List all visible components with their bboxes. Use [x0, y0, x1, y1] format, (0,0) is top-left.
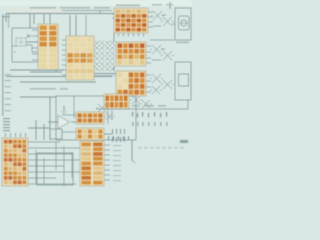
- wire U4 top drop: [69, 15, 71, 36]
- wire bus F to U9: [28, 142, 80, 186]
- U1 right pins: [148, 11, 153, 13]
- M1 caption: [176, 42, 189, 44]
- U3 right pins: [146, 74, 151, 76]
- wire U4 top drop extra: [85, 15, 87, 36]
- IC U5 (74LS series): [38, 24, 58, 70]
- wire lattice bottom: [94, 73, 118, 75]
- wire modulator lead: [172, 23, 175, 25]
- wire top rail A: [6, 13, 116, 15]
- transistor Q12: [161, 80, 174, 89]
- gate G1 output wire: [26, 41, 38, 43]
- wire bus H1: [10, 69, 64, 71]
- U9 right pin ticks: [104, 144, 110, 146]
- U6 transistor Q15: [140, 100, 152, 108]
- net label text: [30, 88, 56, 90]
- tp labels: [132, 105, 140, 107]
- warm smudge above rail: [8, 8, 68, 13]
- wire U5 top drop: [43, 14, 45, 25]
- small box S1: [50, 129, 62, 139]
- transistor Q10: [161, 51, 174, 60]
- U10 top ticks: [4, 133, 7, 137]
- top-right text marks: [152, 4, 162, 5]
- RF modulator M1: [175, 8, 191, 40]
- shield box 2: [175, 62, 191, 100]
- transistor array Q1-Q6: [95, 41, 115, 71]
- transistor Q9: [150, 45, 163, 54]
- left bus wire: [2, 14, 4, 116]
- wire box inner vertical: [73, 96, 75, 118]
- IC U7 (timer): [76, 112, 104, 124]
- U1 bottom pin ticks: [117, 34, 120, 37]
- wire mid vertical: [49, 97, 51, 140]
- U6 transistor Q14: [130, 96, 142, 104]
- IC U3 (RAM): [116, 71, 146, 96]
- box upper-left: [12, 28, 38, 62]
- transistor Q13: [150, 86, 162, 94]
- U9 pin labels: [113, 145, 121, 146]
- wire stub B1: [62, 114, 76, 116]
- U2 right pins: [146, 45, 151, 47]
- wire gate feedback: [12, 45, 38, 52]
- wire top rail B: [62, 11, 112, 14]
- U8 output wire: [104, 133, 112, 135]
- IC U6 (sound): [104, 94, 129, 109]
- wires above F: [35, 120, 37, 140]
- IC U1 (video): [114, 8, 148, 33]
- U1 input wires: [112, 13, 114, 15]
- test point row TP1-TP7: [132, 112, 167, 126]
- left bus labels: [5, 74, 12, 75]
- transistor Q7: [151, 11, 164, 20]
- wire Q7-Q8 links: [153, 15, 166, 26]
- analog section box: [56, 96, 136, 140]
- crossing X below E: [96, 104, 108, 112]
- left connector ticks: [3, 118, 10, 119]
- wire top-left drop: [5, 14, 7, 23]
- op-amp A1: [58, 116, 70, 129]
- bottom-right vertical wire: [131, 140, 133, 160]
- title text: [30, 7, 56, 9]
- U9 top ticks: [108, 136, 109, 140]
- IC U9 (I/O): [80, 141, 104, 186]
- wire bus H2: [6, 76, 112, 78]
- arrow mark: [27, 34, 32, 38]
- transistor Q11: [150, 74, 163, 83]
- U1 label text: [116, 5, 140, 7]
- op-amp wires: [48, 121, 58, 123]
- node stub x30: [29, 14, 31, 29]
- U7 transistor Q16: [104, 113, 115, 120]
- page top tint: [0, 0, 192, 6]
- watermark text: [138, 147, 142, 149]
- wire bus H3: [20, 81, 96, 83]
- gate G1: [16, 38, 26, 46]
- wire right vertical x170: [169, 2, 171, 9]
- routing box BL: [37, 153, 73, 185]
- small text under rail: [2, 16, 10, 17]
- wire long rail y109: [96, 108, 188, 110]
- corner mark: [180, 140, 188, 143]
- IC U4 (CPU): [66, 36, 94, 80]
- IC U8 (timer): [76, 128, 104, 140]
- wire U3-U2 vertical: [113, 33, 115, 42]
- wire U2 row links: [152, 49, 165, 60]
- wire into box: [20, 96, 56, 98]
- U5 left pin ticks: [32, 29, 38, 31]
- wire right mid rail: [150, 39, 174, 41]
- IC U10 (ROM): [2, 138, 28, 186]
- U5 bottom wire: [30, 71, 62, 73]
- transistor Q8: [161, 17, 174, 26]
- connector column ticks: [112, 129, 113, 134]
- wire U6 bottom drops: [107, 110, 109, 124]
- wire stub B2: [62, 131, 76, 133]
- IC U2 (RAM): [116, 42, 146, 66]
- U4 left pin ticks: [62, 39, 66, 41]
